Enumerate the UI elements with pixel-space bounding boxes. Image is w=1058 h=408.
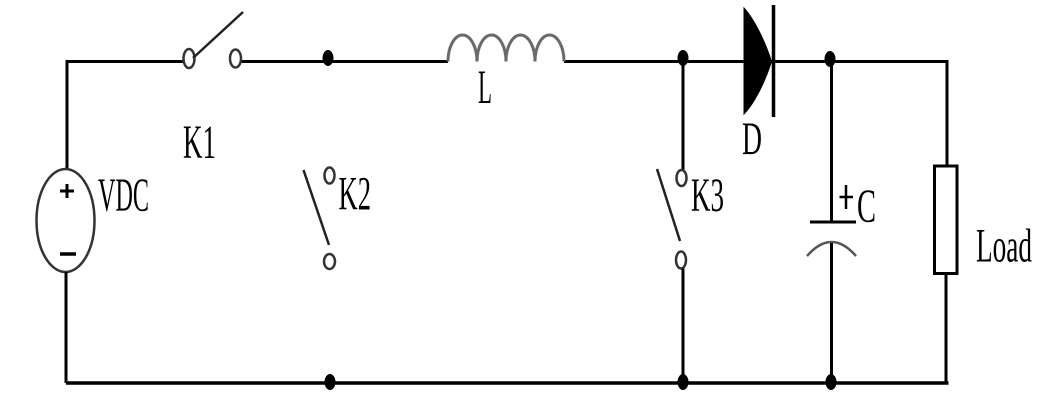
svg-text:L: L: [478, 61, 492, 114]
svg-text:D: D: [742, 113, 762, 165]
svg-text:Load: Load: [976, 220, 1032, 273]
svg-text:K1: K1: [183, 116, 216, 169]
svg-text:C: C: [857, 180, 876, 233]
svg-text:VDC: VDC: [98, 169, 149, 222]
svg-text:K2: K2: [339, 168, 372, 221]
svg-text:K3: K3: [691, 169, 724, 222]
